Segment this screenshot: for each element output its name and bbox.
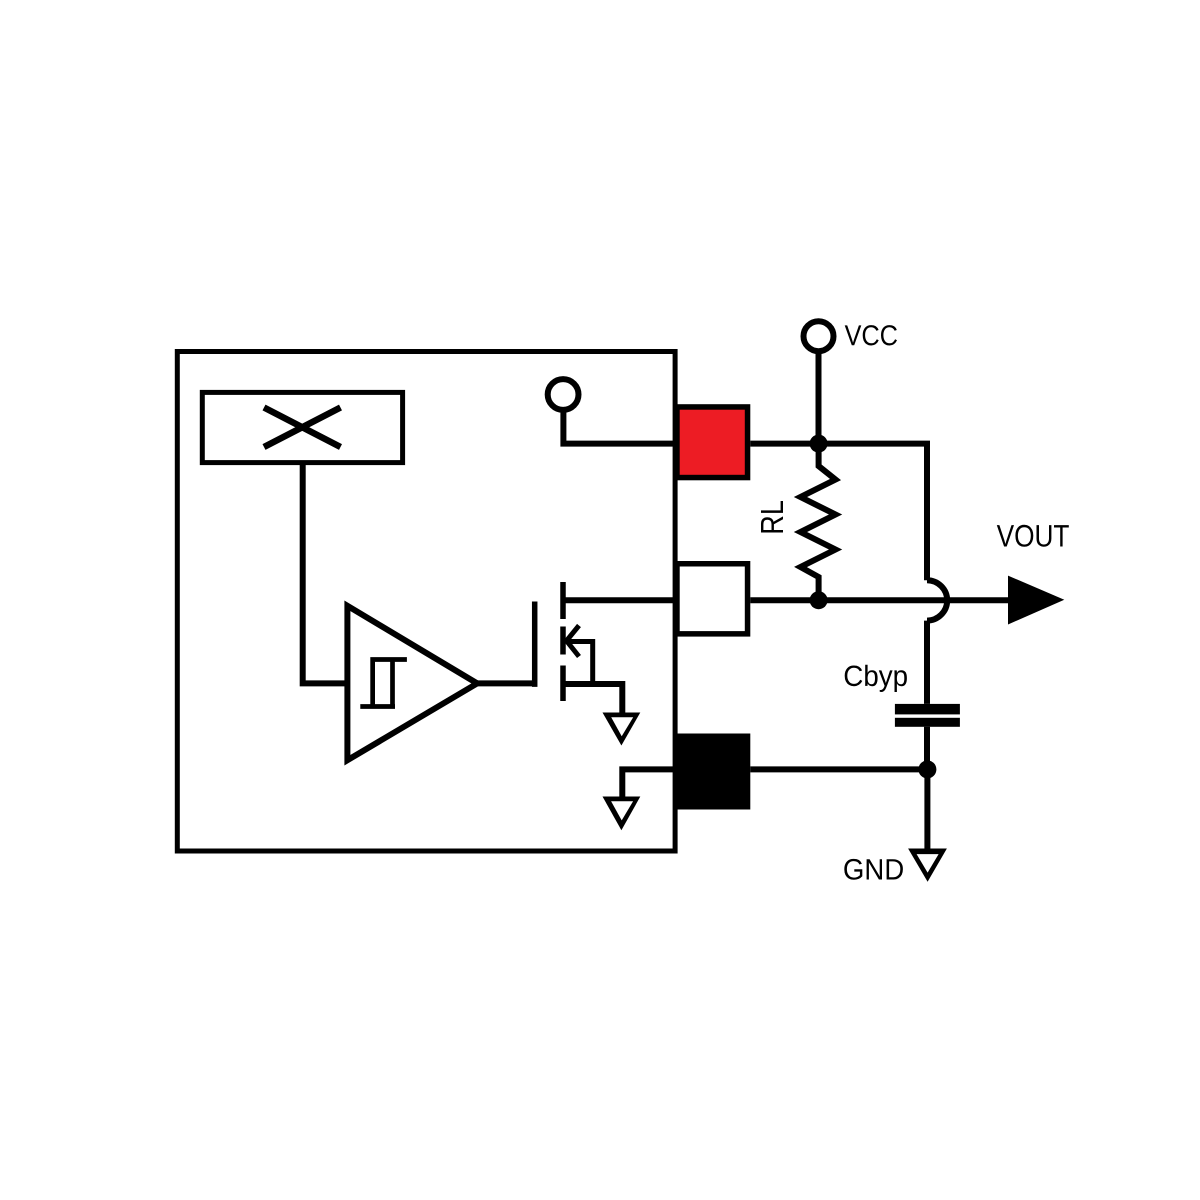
wire output line <box>750 597 1010 603</box>
hysteresis symbol <box>360 657 407 706</box>
op-amp schmitt trigger U2 <box>347 606 477 760</box>
wire VCC terminal down to node <box>816 350 822 444</box>
wire VCC rail to bypass branch <box>750 444 927 581</box>
wire internal supply to VCC pin <box>563 409 677 444</box>
pin GND (black pad) <box>674 734 750 810</box>
wire drain to output pin <box>563 597 677 603</box>
node VCC junction <box>810 435 828 453</box>
node ground junction <box>918 760 936 778</box>
transistor Q1 gate bar <box>532 602 538 687</box>
label VCC <box>845 325 897 345</box>
pin VCC (red pad) <box>677 407 748 478</box>
resistor RL <box>801 444 836 601</box>
internal supply terminal circle <box>548 379 579 410</box>
pin OUTPUT (white pad) <box>677 564 748 634</box>
ground symbol internal 1 <box>603 713 641 746</box>
wire hop to capacitor <box>924 621 930 704</box>
node output junction <box>810 591 828 609</box>
hall element X mark <box>264 408 341 448</box>
wire GND pin to ground node <box>750 766 927 772</box>
transistor Q1 channel bar <box>560 582 566 701</box>
VCC terminal circle <box>804 321 834 351</box>
wire schmitt output to gate <box>477 680 537 686</box>
IC block outline U1 <box>177 352 675 852</box>
wire node to ground symbol <box>924 769 930 850</box>
label GND <box>844 859 903 880</box>
label RL <box>761 501 783 533</box>
ground symbol GND <box>908 849 947 882</box>
hall element box <box>202 392 402 462</box>
wire source to ground <box>563 684 622 714</box>
VOUT arrow <box>1008 576 1064 625</box>
label VOUT <box>997 525 1069 547</box>
label Cbyp <box>845 665 907 692</box>
ground symbol internal 2 <box>603 797 641 831</box>
wire GND pin to internal ground <box>622 769 676 799</box>
wire capacitor to ground node <box>924 727 930 770</box>
capacitor Cbyp <box>895 704 960 715</box>
transistor Q1 body arrow <box>566 626 593 685</box>
wire hop over output line <box>927 580 947 620</box>
wire hall element to schmitt input <box>303 463 345 684</box>
